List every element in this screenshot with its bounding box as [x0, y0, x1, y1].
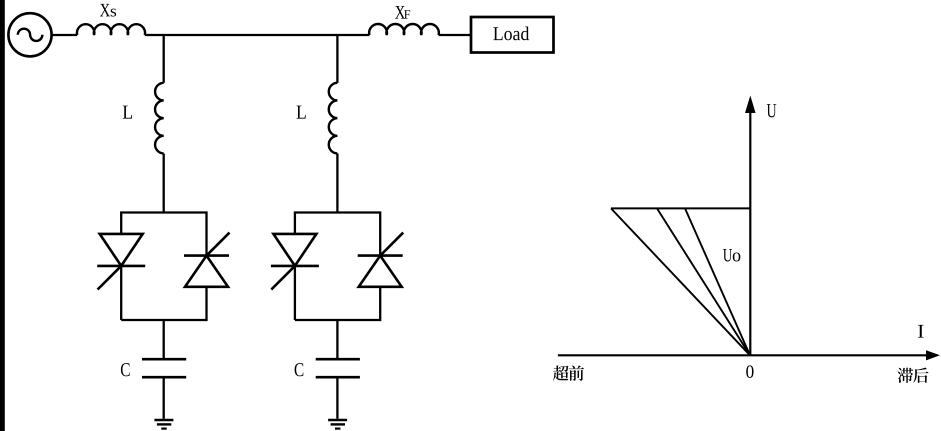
- load line 3: [685, 208, 750, 355]
- wire TCR2 to C2: [336, 320, 338, 359]
- thyristor V2: [184, 233, 230, 287]
- wire TCR2 right leg upper: [379, 211, 381, 255]
- wire TCR2 bottom bar: [295, 319, 380, 321]
- label L2: [297, 106, 306, 119]
- wire TCR2 left leg upper: [294, 211, 296, 234]
- label U: [767, 104, 777, 117]
- wire TCR2 right leg lower: [379, 287, 381, 321]
- label C2: [295, 363, 304, 376]
- wire L2 to TCR box 2: [336, 154, 338, 213]
- label 滞后: [898, 368, 929, 383]
- wire bus Xs to XF: [145, 34, 370, 36]
- label 超前: [553, 365, 584, 380]
- load line 2: [657, 208, 750, 355]
- inductor XF: [369, 24, 439, 35]
- wire TCR1 right leg upper: [205, 211, 207, 255]
- capacitor C1: [142, 359, 186, 377]
- label XF: [395, 6, 410, 19]
- wire TCR2 top bar: [295, 211, 380, 213]
- wire TCR1 bottom bar: [121, 319, 206, 321]
- label C1: [121, 363, 130, 376]
- wire C2 to ground: [336, 377, 338, 419]
- inductor Xs: [77, 24, 145, 35]
- ground 2: [328, 420, 347, 429]
- wire branch 2 drop: [336, 35, 338, 83]
- ground 1: [154, 420, 173, 429]
- capacitor C2: [316, 359, 360, 377]
- load line 1: [611, 208, 750, 355]
- wire branch 1 drop: [163, 35, 165, 83]
- wire XF to load: [439, 34, 471, 36]
- label 0: [746, 365, 753, 377]
- label I: [918, 325, 924, 338]
- axis I: [558, 350, 940, 360]
- label Uo: [723, 249, 740, 261]
- thyristor V3: [271, 234, 319, 290]
- AC source G1: [8, 13, 51, 56]
- wire TCR1 right leg lower: [205, 287, 207, 321]
- wire TCR1 top bar: [121, 211, 206, 213]
- wire TCR2 left leg lower: [294, 266, 296, 320]
- load box: [471, 17, 554, 53]
- wire TCR1 to C1: [163, 320, 165, 359]
- inductor L2: [329, 83, 338, 154]
- wire source to Xs: [52, 34, 78, 36]
- label Xs: [100, 4, 116, 17]
- wire L1 to TCR box 1: [163, 154, 165, 213]
- wire C1 to ground: [163, 377, 165, 419]
- wire TCR1 left leg upper: [120, 211, 122, 234]
- axis U: [745, 96, 756, 356]
- characteristic top line: [611, 207, 750, 209]
- inductor L1: [155, 83, 164, 154]
- thyristor V4: [358, 233, 404, 287]
- wire TCR1 left leg lower: [120, 266, 122, 320]
- thyristor V1: [97, 234, 145, 290]
- label L1: [123, 106, 132, 119]
